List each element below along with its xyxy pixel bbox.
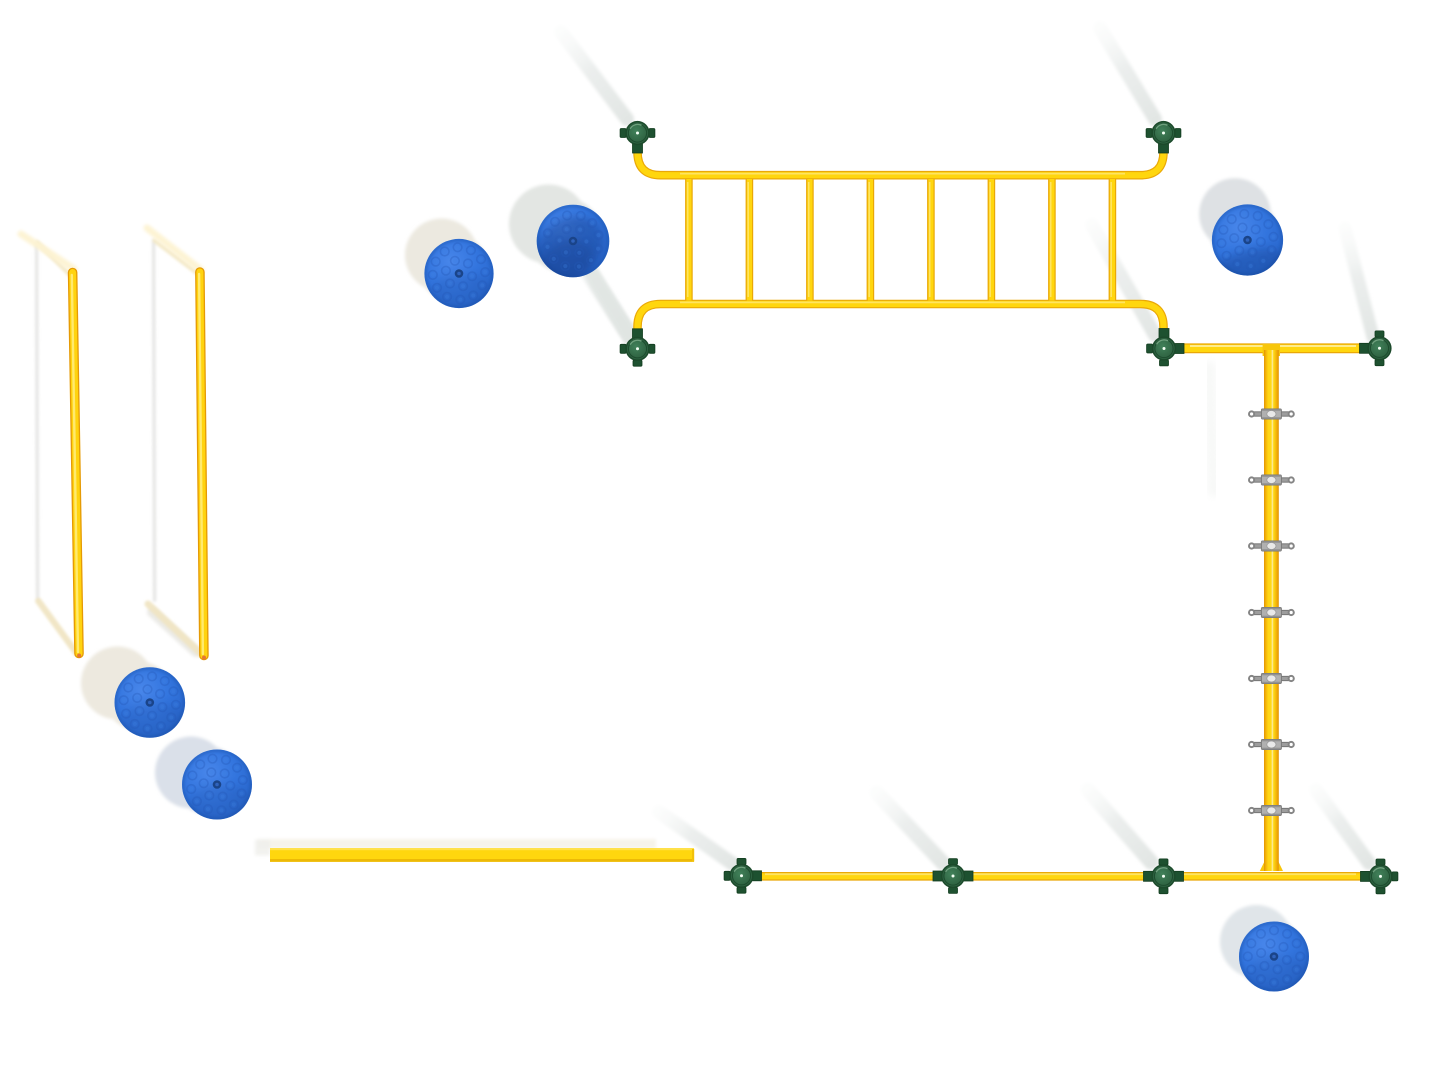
- hand-grip clamp 4 on vertical pipe: [1249, 608, 1294, 618]
- green post cap ladder TL: [620, 121, 655, 153]
- shadow of pod P5: [155, 737, 242, 815]
- hand-grip clamp 5 on vertical pipe: [1249, 674, 1294, 684]
- shadow of west parallel bar: [37, 242, 77, 653]
- shadow of pod P3: [1199, 178, 1277, 264]
- ladder rung 8: [1111, 179, 1112, 301]
- shadow of bottom post 4: [1316, 790, 1369, 863]
- overhead ladder north rail: [638, 146, 1164, 175]
- hand-grip clamp 3 on vertical pipe: [1249, 541, 1294, 551]
- shadow band core near ladder BL cap: [590, 270, 630, 336]
- east parallel bar: [199, 272, 204, 656]
- south horizontal pipe: [753, 874, 1368, 876]
- ladder rung 2: [748, 179, 749, 301]
- green post cap chin-bar east: [1360, 331, 1392, 366]
- pale leg shadow at west bar top: [21, 234, 74, 269]
- shadow of pod P1: [405, 219, 487, 302]
- vertical pipe tee top flare: [1263, 344, 1280, 356]
- shadow of vertical pipe: [1209, 368, 1214, 490]
- west parallel bar: [72, 273, 79, 654]
- balance beam: [270, 848, 694, 862]
- ladder rung 7: [1051, 179, 1052, 301]
- stepper pod P6: [1239, 922, 1312, 996]
- ladder rung 6: [990, 179, 991, 301]
- shadow of bottom post 3: [1088, 790, 1151, 862]
- stepper pod P4: [115, 667, 189, 741]
- shadow of ladder post BL: [568, 240, 630, 336]
- green post cap junction ladder BR: [1147, 329, 1184, 366]
- green post cap ladder TR: [1146, 121, 1181, 153]
- ladder rung 3: [809, 179, 810, 301]
- chin-up bar: [1176, 346, 1368, 348]
- ladder rung 4: [869, 179, 870, 301]
- vertical pipe tee bottom flare: [1260, 862, 1264, 871]
- pale leg shadow at east bar top: [147, 228, 201, 270]
- shadow of ladder post TR: [1100, 28, 1155, 119]
- green post cap south post 4: [1361, 859, 1398, 894]
- west bar foot tip: [77, 654, 81, 658]
- hand-grip clamp 1 on vertical pipe: [1249, 409, 1294, 419]
- shadow of bottom post 1: [659, 812, 733, 864]
- stepper pod P5: [182, 750, 255, 824]
- stepper pod P3: [1210, 204, 1290, 295]
- shadow of pod P2: [509, 185, 602, 273]
- stepper pod P2: [520, 203, 617, 300]
- hand-grip clamp 6 on vertical pipe: [1249, 740, 1294, 750]
- shadow patch at east bar foot: [152, 612, 196, 652]
- shadow of chin-bar east post: [1345, 228, 1373, 337]
- shadow of pod P6: [1220, 905, 1302, 986]
- green post cap south post 3: [1144, 859, 1184, 894]
- overhead ladder south rail: [638, 302, 1164, 336]
- stepper pod P1: [424, 239, 496, 312]
- green post cap ladder BL: [620, 329, 655, 366]
- hand-grip clamp 2 on vertical pipe: [1249, 475, 1294, 485]
- shadow of pod P4: [81, 647, 173, 731]
- shadow of junction post: [1092, 225, 1155, 335]
- green post cap south post 1: [724, 858, 761, 893]
- vertical pipe: [1264, 350, 1279, 871]
- east bar foot tip: [202, 656, 206, 660]
- shadow of east parallel bar: [148, 240, 203, 655]
- green post cap south post 2: [933, 859, 973, 894]
- hand-grip clamp 7 on vertical pipe: [1249, 806, 1294, 816]
- ladder rung 5: [930, 179, 931, 301]
- shadow of ladder post TL: [561, 32, 627, 119]
- shadow of bottom post 2: [877, 793, 943, 863]
- ladder rung 1: [688, 179, 689, 301]
- shadow of balance beam: [255, 839, 656, 856]
